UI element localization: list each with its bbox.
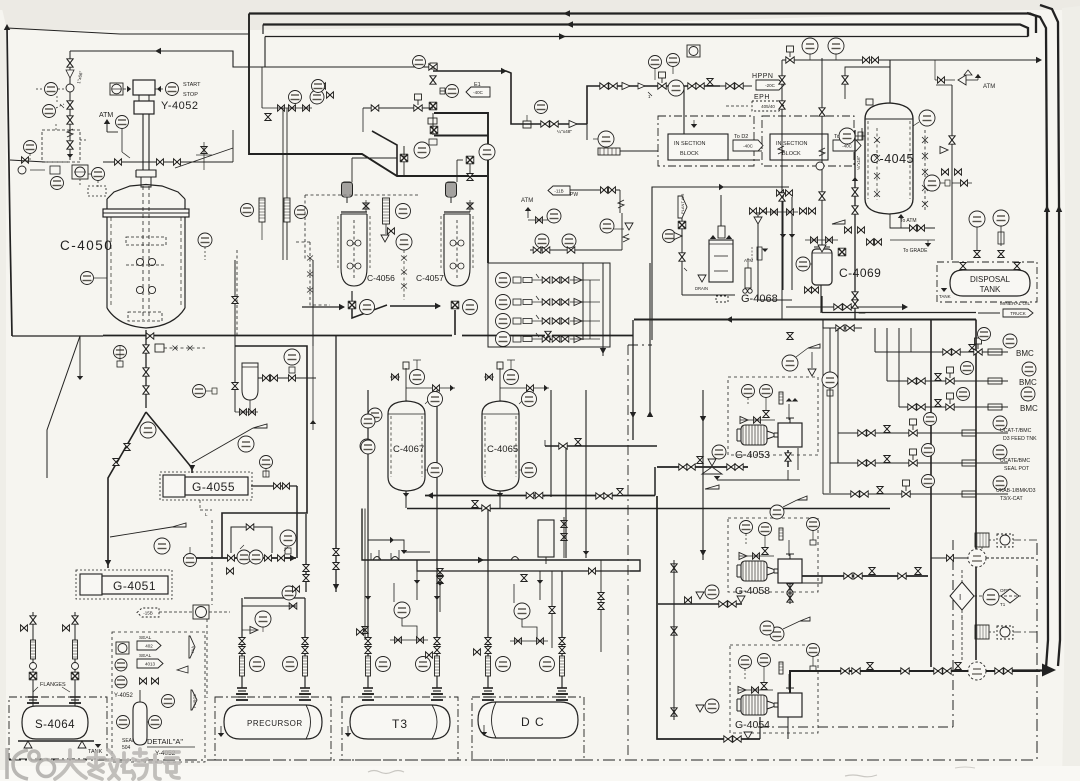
jacket sight glasses [259, 198, 265, 222]
G-4055 riser wire [296, 486, 298, 558]
C-4050 tent wires [145, 330, 147, 408]
xcat row 6 [823, 493, 1008, 495]
vessel outlet arrows [403, 493, 409, 497]
G-4053 discharge wire [787, 450, 789, 467]
PSV G-4054 [770, 627, 784, 641]
XL circle instrument [166, 83, 179, 96]
svg-text:C-4057: C-4057 [416, 273, 444, 283]
manifold extra stubs [416, 571, 418, 600]
PT G-4054 [807, 644, 820, 657]
dashed jacket loop [310, 242, 330, 305]
svg-text:TNA: TNA [190, 646, 195, 654]
detail A Y-4052 pot [114, 690, 147, 745]
svg-text:-15B: -15B [143, 611, 153, 616]
SPV junction left [401, 154, 407, 162]
svg-text:ATM: ATM [983, 84, 995, 90]
LIC circle [149, 716, 162, 729]
strainer mid [671, 564, 677, 572]
manifold jogs [370, 553, 372, 560]
svg-text:To ATM: To ATM [900, 218, 917, 224]
misc verticals mid [550, 390, 552, 497]
precursor feed branch [289, 603, 297, 609]
left cluster dashes [56, 96, 58, 104]
svg-text:G-4058: G-4058 [735, 585, 770, 597]
dashed tie line [305, 194, 420, 196]
PV2 circle [24, 141, 37, 154]
PT circle fe [193, 385, 206, 398]
precursor top fittings [237, 693, 247, 695]
sample rows [496, 273, 511, 288]
svg-text:START: START [183, 82, 201, 88]
dashed control box [42, 130, 80, 162]
sample frame wire [372, 131, 397, 176]
suction drop to manifold [657, 496, 760, 739]
svg-text:G-4055: G-4055 [192, 480, 235, 494]
pump recirc wires [797, 448, 799, 470]
vent stack line [69, 51, 71, 160]
vessel C-4045 [865, 99, 913, 214]
PT on G-4055 out [260, 456, 273, 469]
svg-text:TRUCK: TRUCK [1010, 311, 1026, 316]
valve row under C-4050 [146, 333, 154, 339]
PW pointer [548, 186, 570, 195]
wire riser [587, 86, 720, 124]
T3 precursor drop wires [335, 336, 337, 593]
tank T3 [350, 705, 450, 739]
mid riser x313 [312, 260, 314, 346]
export line right [900, 59, 1040, 61]
G-4058 instruments [740, 521, 753, 534]
svg-text:MINERAL OIL: MINERAL OIL [1000, 301, 1031, 307]
G-4058 suction fittings [719, 601, 727, 607]
frame wire drop [434, 113, 488, 263]
PSV 4059 [782, 355, 798, 371]
svg-text:402: 402 [145, 644, 153, 649]
in section block 1 [658, 116, 754, 166]
T3 droppers [365, 638, 371, 645]
svg-text:STOP: STOP [183, 92, 198, 98]
vertical drops to C-4069 [757, 212, 759, 300]
wire from blocks right [754, 150, 762, 152]
sample box frame [488, 263, 610, 347]
C-4050 feed line [103, 161, 233, 163]
disposal tank [937, 262, 1037, 302]
MV circle funnel [600, 219, 614, 233]
vessel C-4057 [441, 182, 473, 286]
vessel C-4065 [482, 401, 519, 497]
rect small left [538, 520, 554, 557]
reactor C-4050 [103, 170, 189, 328]
frame wire lower [434, 135, 488, 137]
precursor box arrows [227, 568, 234, 574]
C-4050 agitator impellers [136, 258, 143, 265]
svg-text:C-4050: C-4050 [60, 238, 113, 253]
PSV G-4058 [770, 505, 784, 519]
svg-text:DISPOSAL: DISPOSAL [970, 275, 1011, 284]
STKA box lower [975, 625, 989, 639]
filter G-4055 [160, 472, 252, 500]
fe pot [242, 363, 258, 400]
svg-text:BMC: BMC [1019, 378, 1037, 387]
T3 jog wire [368, 540, 430, 552]
right border wire inner [1027, 13, 1048, 668]
svg-text:TANK: TANK [980, 285, 1001, 294]
C-4050 top fittings [201, 147, 207, 154]
precursor upper circles [282, 586, 296, 600]
trunk mid second [222, 346, 307, 558]
left instrument column x782 [781, 60, 783, 320]
svg-text:BMC: BMC [1020, 404, 1038, 413]
T3 top fittings [363, 693, 373, 695]
precursor enclosure [215, 697, 331, 760]
left low trunk wire [12, 335, 103, 337]
G-4053 line wire [545, 445, 657, 447]
svg-text:ATM: ATM [521, 198, 533, 204]
svg-text:To GRADE: To GRADE [903, 248, 928, 254]
XV circle top [413, 56, 426, 69]
main line to blocks [586, 124, 588, 140]
disposal tank feed valves [962, 262, 964, 270]
FC T3 loop [394, 602, 410, 618]
DC top fittings [483, 693, 493, 695]
svg-text:BLOCK: BLOCK [782, 151, 801, 157]
pencil scribbles [368, 771, 404, 774]
DC manifold wires [362, 509, 640, 572]
svg-text:S-4064: S-4064 [35, 719, 75, 731]
LT C-4069 [796, 257, 810, 271]
to grade branch [890, 239, 935, 241]
tank farm trunk B [407, 508, 890, 510]
upper-left frame wire [249, 14, 487, 177]
SPV junction right [467, 156, 473, 164]
UA circle [983, 589, 999, 605]
svg-text:UCATE/BMC: UCATE/BMC [1000, 458, 1030, 464]
frame around scrubber [652, 187, 789, 340]
trunk under C-4050 [103, 335, 452, 337]
tank DC [478, 702, 578, 738]
T3 enclosure [342, 697, 458, 760]
diag wire C-4050 to C-4056 row [362, 154, 397, 176]
svg-text:G-4054: G-4054 [735, 719, 770, 731]
DC droppers [485, 638, 491, 645]
risers to vessels [403, 146, 405, 158]
PV circle and fittings on drop line [535, 101, 548, 114]
LIC lower circle [51, 177, 64, 190]
svg-text:SEAL: SEAL [139, 635, 152, 641]
svg-text:G-4051: G-4051 [113, 579, 156, 593]
svg-text:HPPN: HPPN [752, 73, 773, 80]
precursor droppers [239, 638, 245, 645]
PT header [822, 372, 838, 388]
inline mixer [598, 148, 620, 155]
in section block 2 [762, 116, 854, 166]
bottom boundary dashdot [9, 759, 1037, 761]
pump G-4058 [741, 561, 767, 581]
svg-text:D3 FEED TNK: D3 FEED TNK [1003, 436, 1037, 442]
diamond dash link [961, 617, 963, 660]
G-4055 inlet flag [192, 428, 253, 463]
feed tank row 4 [838, 432, 1008, 434]
LPH heater [383, 198, 390, 224]
tank S-4064 [18, 706, 94, 748]
manifold loopovers [373, 557, 381, 561]
precursor feed header [183, 557, 296, 559]
LT circles vessels [428, 392, 443, 407]
header tap valves [787, 333, 793, 340]
heavy connect line [404, 175, 420, 177]
C-4067 C-4065 tops [405, 368, 407, 401]
svg-text:PW: PW [570, 192, 578, 198]
top trunk wire 3 [265, 36, 1028, 38]
wire down [621, 213, 623, 250]
svg-text:-40C: -40C [473, 90, 484, 95]
svg-text:I: I [959, 593, 961, 602]
plant air pointer [678, 196, 687, 218]
G-4055 out wire [251, 485, 297, 487]
x336 lower valves [333, 549, 339, 556]
PT dashed circle G-4058 [968, 549, 986, 567]
S-4064 feed pipes [32, 612, 34, 706]
extra kv circles top [312, 80, 325, 93]
svg-text:¼"x48": ¼"x48" [557, 129, 572, 135]
svg-text:BLOCK: BLOCK [680, 151, 699, 157]
svg-text:SEAL POT: SEAL POT [1004, 466, 1030, 472]
BMC row 1 [875, 351, 1008, 353]
15B pointer [137, 608, 159, 617]
svg-text:D C: D C [521, 715, 545, 729]
tank PRECURSOR [224, 705, 322, 739]
PSH circles vessels [410, 370, 425, 385]
tent left diag wire [47, 336, 103, 478]
svg-text:SEAL: SEAL [122, 738, 135, 744]
FY box [72, 165, 88, 179]
PSH LPH circles mid [368, 408, 382, 422]
PSV to ATM [958, 75, 966, 85]
disposal feed wire [786, 306, 906, 308]
PV circle [43, 105, 56, 118]
x433 lower fittings [431, 126, 437, 134]
to ATM branch [890, 214, 935, 228]
XL square instrument [110, 83, 123, 95]
TA TB circles [428, 463, 443, 478]
svg-text:PRECURSOR: PRECURSOR [247, 719, 303, 728]
CT circle [919, 110, 935, 126]
vessel C-4069 [812, 247, 832, 285]
top-left arc wire [7, 28, 249, 34]
C-4050 lower right dashes [236, 250, 238, 335]
header wire upper [822, 312, 976, 314]
PT at tent [114, 346, 127, 359]
FT PSH left column circles [361, 414, 375, 428]
header wire C-4069 row [634, 319, 976, 321]
BMC header drops [823, 320, 862, 328]
feed wire to E1 [433, 71, 587, 124]
G-4058 trunk valves [844, 573, 852, 579]
G-4054 suction strainer [724, 736, 732, 742]
loop rect above PT assembly [231, 527, 272, 553]
top feed line [782, 59, 900, 61]
tent left leg valves [113, 459, 119, 466]
PSV G-4051 [154, 538, 170, 554]
outlet valves trunkA [482, 505, 490, 511]
svg-text:C-4045: C-4045 [870, 152, 914, 166]
G-4054 discharge trunk [790, 671, 1040, 695]
mid valves trunk A [596, 493, 604, 499]
suction downcomer [654, 467, 656, 496]
second diamond [1001, 589, 1019, 603]
svg-text:T3: T3 [392, 717, 408, 731]
PW circle [760, 621, 774, 635]
LIR on shell [839, 128, 855, 144]
C-4045 top piping [889, 60, 891, 103]
svg-text:C-4067: C-4067 [393, 444, 424, 455]
G-4068 drain [682, 294, 735, 296]
PSH mid circle [547, 209, 561, 223]
riser arrows mid [365, 596, 371, 600]
svg-text:PLANT AIR: PLANT AIR [680, 194, 685, 214]
atm psv riser [121, 129, 123, 152]
wire Y4052 right [265, 66, 433, 68]
BMC row 2 [887, 380, 1008, 382]
PT assembly circles [184, 554, 197, 567]
BMC row 3 [899, 406, 1008, 408]
svg-text:4013: 4013 [145, 662, 156, 667]
thermowell TE [81, 272, 94, 285]
tank S-4064 enclosure [9, 697, 107, 759]
dashed vertical precursor [206, 619, 208, 698]
svg-text:Y-4052: Y-4052 [161, 100, 198, 112]
sample row verticals [589, 280, 591, 339]
C-4050 bottom outlet valves [143, 345, 149, 353]
svg-text:504: 504 [122, 745, 131, 751]
interlock diamond [950, 582, 974, 610]
C-4069 outlet [820, 285, 822, 313]
left border wire [7, 27, 12, 336]
svg-text:Y-4052: Y-4052 [114, 693, 133, 699]
svg-text:DETAIL"A": DETAIL"A" [147, 737, 183, 746]
FE circle [284, 349, 300, 365]
reducer flag suction [705, 485, 719, 489]
STKA box upper [975, 533, 989, 547]
atm relief right [964, 70, 972, 75]
watermark logo [7, 748, 55, 779]
pump area dashdot boundary [627, 345, 629, 758]
vessel C-4056 [338, 182, 370, 286]
scrubber G-4068 [709, 195, 733, 282]
svg-text:G-4068: G-4068 [741, 293, 778, 305]
PT circle lower [92, 168, 105, 181]
svg-text:TANK: TANK [939, 294, 951, 299]
vessel C-4067 [388, 401, 425, 497]
svg-text:C-4056: C-4056 [367, 273, 395, 283]
PT G-4058 [807, 518, 820, 531]
svg-text:PURGE: PURGE [192, 693, 197, 708]
svg-text:To D2: To D2 [734, 134, 748, 140]
pump G-4054 [741, 695, 767, 715]
G-4054 instruments [739, 656, 752, 669]
C-4045 outlet riser [854, 130, 856, 320]
svg-text:UKAB-1/BMK/D3: UKAB-1/BMK/D3 [996, 488, 1036, 494]
sample box verticals [582, 263, 584, 340]
watermark characters [55, 749, 179, 779]
mid drop wire [632, 320, 634, 440]
upper line instruments [649, 56, 662, 69]
svg-text:IN SECTION: IN SECTION [674, 141, 706, 147]
svg-text:BMC: BMC [1016, 349, 1034, 358]
right border wire outer [1040, 5, 1060, 666]
LI circle [117, 716, 130, 729]
svg-text:C-4065: C-4065 [487, 444, 518, 455]
suction strainer STK G-4053 [679, 464, 687, 470]
C-4056 outlet wire [302, 306, 344, 308]
svg-text:SEAL: SEAL [139, 653, 152, 659]
seal pot row 5 [830, 462, 1008, 464]
C-4069 inlet valves [800, 208, 807, 214]
left stub wires [540, 495, 545, 497]
svg-text:-40C: -40C [743, 144, 754, 149]
top trunk wire 2 [263, 25, 1028, 37]
svg-text:T1: T1 [1000, 602, 1006, 607]
pump suction manifold2 [658, 603, 742, 605]
FC DC loop [514, 603, 530, 619]
G-4051 diag flag [110, 527, 172, 537]
pump G-4053 [741, 425, 767, 445]
small pv cluster [18, 166, 26, 174]
tank farm trunk A [425, 495, 655, 497]
border low fittings [22, 157, 29, 163]
agitator Y-4052 [133, 80, 155, 170]
upper area stray circles [310, 90, 324, 104]
LIR circle top [802, 38, 818, 54]
LIC circle [45, 83, 58, 96]
pump G-4053 enclosure [728, 377, 818, 455]
E1 heat exchanger pointer [430, 63, 437, 69]
svg-text:405/40: 405/40 [761, 104, 775, 109]
G-4055 drain dashes [200, 500, 212, 510]
svg-text:G-4053: G-4053 [735, 449, 770, 461]
PSP circle [238, 436, 254, 452]
left riser x235 [234, 260, 236, 412]
pump G-4058 enclosure [728, 518, 818, 592]
svg-text:⅛"x16": ⅛"x16" [856, 155, 861, 170]
main product arrow [1042, 664, 1056, 677]
detail A instruments [116, 642, 129, 654]
G-4053 instruments [742, 385, 755, 398]
pump area dashdot [952, 540, 954, 727]
level switch circles [969, 211, 985, 227]
C-4057 outlet trunk [390, 305, 440, 307]
G-4053 discharge valves [785, 453, 791, 461]
G-4058 discharge trunk [800, 575, 928, 577]
right boundary dashdot [1036, 543, 1038, 760]
detail A enclosure [112, 632, 205, 762]
SPV circle [140, 422, 156, 438]
svg-text:IN SECTION: IN SECTION [776, 141, 808, 147]
bottom row valves [530, 249, 622, 251]
svg-text:EPH: EPH [754, 94, 770, 101]
start-stop loop wire [70, 51, 265, 67]
purge pointer [189, 636, 195, 658]
PSV circle [116, 116, 129, 129]
x-marked dashed column [924, 130, 926, 212]
svg-text:T3/X-CAT: T3/X-CAT [1000, 496, 1024, 502]
AT circle right [396, 234, 412, 250]
G-4058 discharge valves [787, 584, 793, 592]
top right of vessel fittings [261, 67, 263, 108]
C-4050 flange band inner [103, 212, 189, 214]
svg-text:ATM: ATM [99, 112, 113, 119]
svg-text:C-4069: C-4069 [839, 266, 881, 280]
